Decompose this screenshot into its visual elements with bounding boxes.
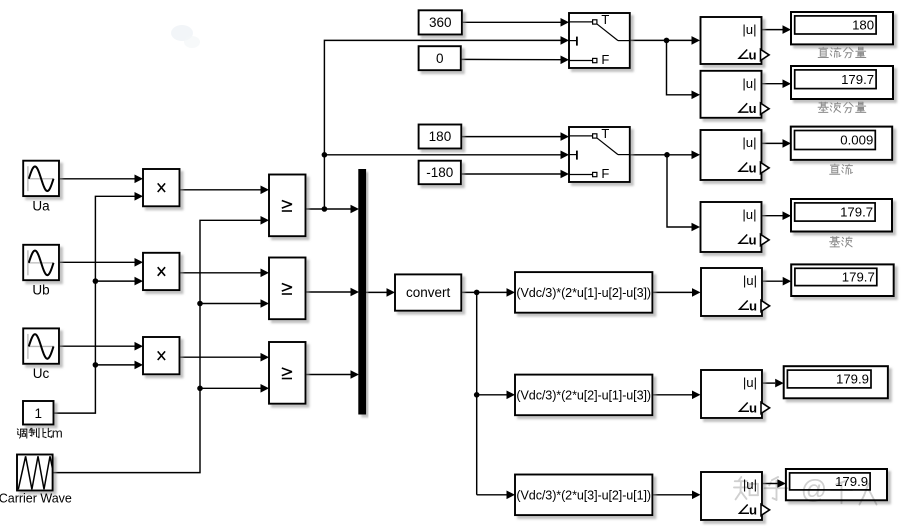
junction carrier-Relational3 [197, 386, 203, 392]
complex to magnitude-angle block CM3 [701, 130, 770, 180]
faint smudge artifact [171, 25, 193, 41]
svg-text:u: u [748, 47, 756, 62]
svg-text:m: m [52, 426, 63, 441]
junction control Switch2 branch [322, 152, 328, 158]
svg-text:0: 0 [436, 51, 444, 66]
wire branch m to Product2 second input [95, 280, 134, 282]
wire constant 0 to Switch1 F input [461, 58, 561, 60]
svg-text:|u|: |u| [743, 375, 757, 390]
svg-text:180: 180 [852, 18, 874, 33]
wire CM2 |u| to Display2 [762, 83, 783, 85]
wire modulation constant m to Product1 second input [54, 196, 135, 413]
wire constant 180 to Switch2 T input [461, 136, 560, 138]
relational operator block GE2 [269, 258, 306, 320]
svg-text:|u|: |u| [742, 207, 756, 222]
wire Product1 to Relational1 [180, 189, 261, 191]
display block Display7 value 179.9 [786, 469, 887, 500]
svg-text:T: T [601, 126, 609, 141]
wire branch to Fcn3 [477, 494, 507, 496]
svg-text:Ub: Ub [32, 283, 49, 298]
svg-text:179.7: 179.7 [841, 72, 874, 87]
junction m-Product2 [93, 278, 99, 284]
svg-text:(Vdc/3)*(2*u[1]-u[2]-u[3]): (Vdc/3)*(2*u[1]-u[2]-u[3]) [516, 286, 651, 300]
label 直流分量 [818, 47, 866, 58]
wire CM6 |u| to Display6 [762, 382, 775, 384]
complex to magnitude-angle block CM1 [701, 17, 770, 64]
wire constant 360 to Switch1 T input [462, 21, 561, 23]
svg-text:-180: -180 [426, 165, 453, 180]
wire Product3 to Relational3 [180, 356, 261, 358]
constant block 0 [419, 46, 461, 70]
complex to magnitude-angle block CM2 [701, 71, 770, 118]
Fcn block F1: (Vdc/3)*(2*u[1]-u[2]-u[3]) [515, 272, 652, 313]
junction carrier-Relational2 [197, 301, 203, 307]
wire CM4 |u| to Display4 [762, 215, 783, 217]
constant block -180 [419, 161, 461, 185]
svg-text:|u|: |u| [743, 273, 757, 288]
wire branch down to ComplexToMagAngle2 [667, 40, 692, 94]
junction convert output [474, 290, 480, 296]
label 调制比m [17, 426, 62, 441]
wire Mux to convert [366, 291, 387, 293]
complex to magnitude-angle block CM7 [701, 472, 770, 520]
svg-text:F: F [601, 166, 609, 181]
wire Fcn2 to ComplexToMagAngle6 [652, 394, 692, 396]
carrier wave source (repeating sequence) [0, 455, 72, 506]
wire Fcn1 to ComplexToMagAngle5 [652, 291, 692, 293]
sine wave source Ub [23, 245, 59, 298]
display block Display4 value 179.7 [791, 199, 892, 232]
svg-text:0.009: 0.009 [840, 133, 873, 148]
wire branch m to Product3 second input [95, 364, 134, 366]
junction convert-Fcn2 [474, 392, 480, 398]
product block P1 (multiply) [143, 169, 180, 206]
junction Switch2 output [664, 152, 670, 158]
wire Carrier Wave to Relational1 second input [53, 220, 261, 472]
sine wave source Uc [23, 328, 59, 381]
svg-text:360: 360 [429, 15, 452, 30]
product block P3 (multiply) [143, 337, 180, 374]
svg-text:u: u [748, 160, 756, 175]
svg-text:179.7: 179.7 [842, 270, 875, 285]
wire Product2 to Relational2 [180, 272, 261, 274]
Fcn block F2: (Vdc/3)*(2*u[2]-u[1]-u[3]) [515, 375, 652, 416]
wire Relational3 to Mux input3 [306, 374, 351, 376]
svg-text:|u|: |u| [742, 22, 756, 37]
label 基波 [830, 237, 853, 247]
svg-text:180: 180 [429, 129, 452, 144]
svg-text:1: 1 [34, 406, 42, 421]
display block Display6 value 179.9 [784, 366, 888, 398]
wire constant -180 to Switch2 F input [461, 173, 561, 175]
wire Uc to Product3 [59, 345, 135, 347]
wire Fcn3 to ComplexToMagAngle7 [652, 494, 692, 496]
svg-text:Uc: Uc [33, 366, 50, 381]
relational operator block GE1 [269, 175, 306, 237]
wire Relational2 to Mux input2 [306, 291, 351, 293]
wire Relational1 to Mux input1 [306, 208, 351, 210]
data type conversion block convert [395, 274, 461, 310]
relational operator block GE3 [269, 342, 306, 404]
display block Display5 value 179.7 [791, 264, 894, 296]
switch block Switch2 [569, 126, 630, 182]
svg-text:(Vdc/3)*(2*u[3]-u[2]-u[1]): (Vdc/3)*(2*u[3]-u[2]-u[1]) [516, 488, 651, 502]
svg-text:T: T [601, 12, 609, 27]
svg-text:(Vdc/3)*(2*u[2]-u[1]-u[3]): (Vdc/3)*(2*u[2]-u[1]-u[3]) [516, 388, 651, 402]
svg-text:u: u [749, 400, 757, 415]
wire control branch up to Switch1 control [324, 40, 560, 209]
label 直流 [830, 164, 853, 174]
svg-text:Carrier Wave: Carrier Wave [0, 492, 72, 506]
complex to magnitude-angle block CM5 [701, 268, 770, 316]
junction m-Product3 [93, 362, 99, 368]
wire CM5 |u| to Display5 [762, 280, 783, 282]
svg-text:179.9: 179.9 [836, 372, 869, 387]
svg-text:|u|: |u| [742, 76, 756, 91]
svg-text:@: @ [801, 474, 827, 504]
svg-text:u: u [749, 298, 757, 313]
Fcn block F3: (Vdc/3)*(2*u[3]-u[2]-u[1]) [515, 475, 652, 516]
switch block Switch1 [569, 12, 630, 68]
label 基波分量 [818, 102, 866, 113]
svg-text:u: u [748, 101, 756, 116]
display block Display3 value 0.009 [791, 127, 892, 160]
sine wave source Ua [23, 161, 59, 214]
wire CM1 |u| to Display1 [762, 29, 783, 31]
wire CM3 |u| to Display3 [762, 142, 783, 144]
wire branch to Fcn2 [477, 394, 507, 396]
wire convert to Fcn1 [461, 291, 506, 293]
svg-text:Ua: Ua [32, 198, 50, 213]
constant block 360 [419, 10, 462, 34]
svg-text:convert: convert [406, 285, 451, 300]
junction Relational1 output [322, 206, 328, 212]
wire Switch2 to ComplexToMagAngle3 [630, 154, 692, 156]
wire branch carrier to Relational2 second input [200, 303, 261, 305]
svg-text:u: u [749, 502, 757, 517]
wire vertical convert branch [476, 292, 478, 494]
svg-text:F: F [601, 52, 609, 67]
mux block (thick bar) [358, 169, 366, 415]
svg-text:179.9: 179.9 [835, 474, 868, 489]
svg-text:|u|: |u| [742, 135, 756, 150]
wire CM7 |u| to Display7 [762, 483, 777, 485]
constant block 1 (modulation ratio) [23, 401, 54, 425]
wire branch carrier to Relational3 second input [200, 387, 261, 389]
wire Switch1 to ComplexToMagAngle1 [630, 39, 692, 41]
complex to magnitude-angle block CM4 [701, 202, 770, 252]
display block Display2 value 179.7 [791, 66, 893, 99]
product block P2 (multiply) [143, 253, 180, 290]
wire Ub to Product2 [59, 261, 135, 263]
complex to magnitude-angle block CM6 [701, 370, 770, 418]
svg-text:u: u [748, 232, 756, 247]
watermark 知乎 @千人 [734, 474, 877, 505]
junction Switch1 output [664, 38, 670, 44]
display block Display1 value 180 [791, 12, 893, 44]
wire control branch to Switch2 control [324, 154, 560, 156]
wire branch down to ComplexToMagAngle4 [667, 155, 692, 227]
svg-text:179.7: 179.7 [840, 205, 873, 220]
constant block 180 [419, 125, 462, 149]
wire Ua to Product1 [59, 178, 135, 180]
